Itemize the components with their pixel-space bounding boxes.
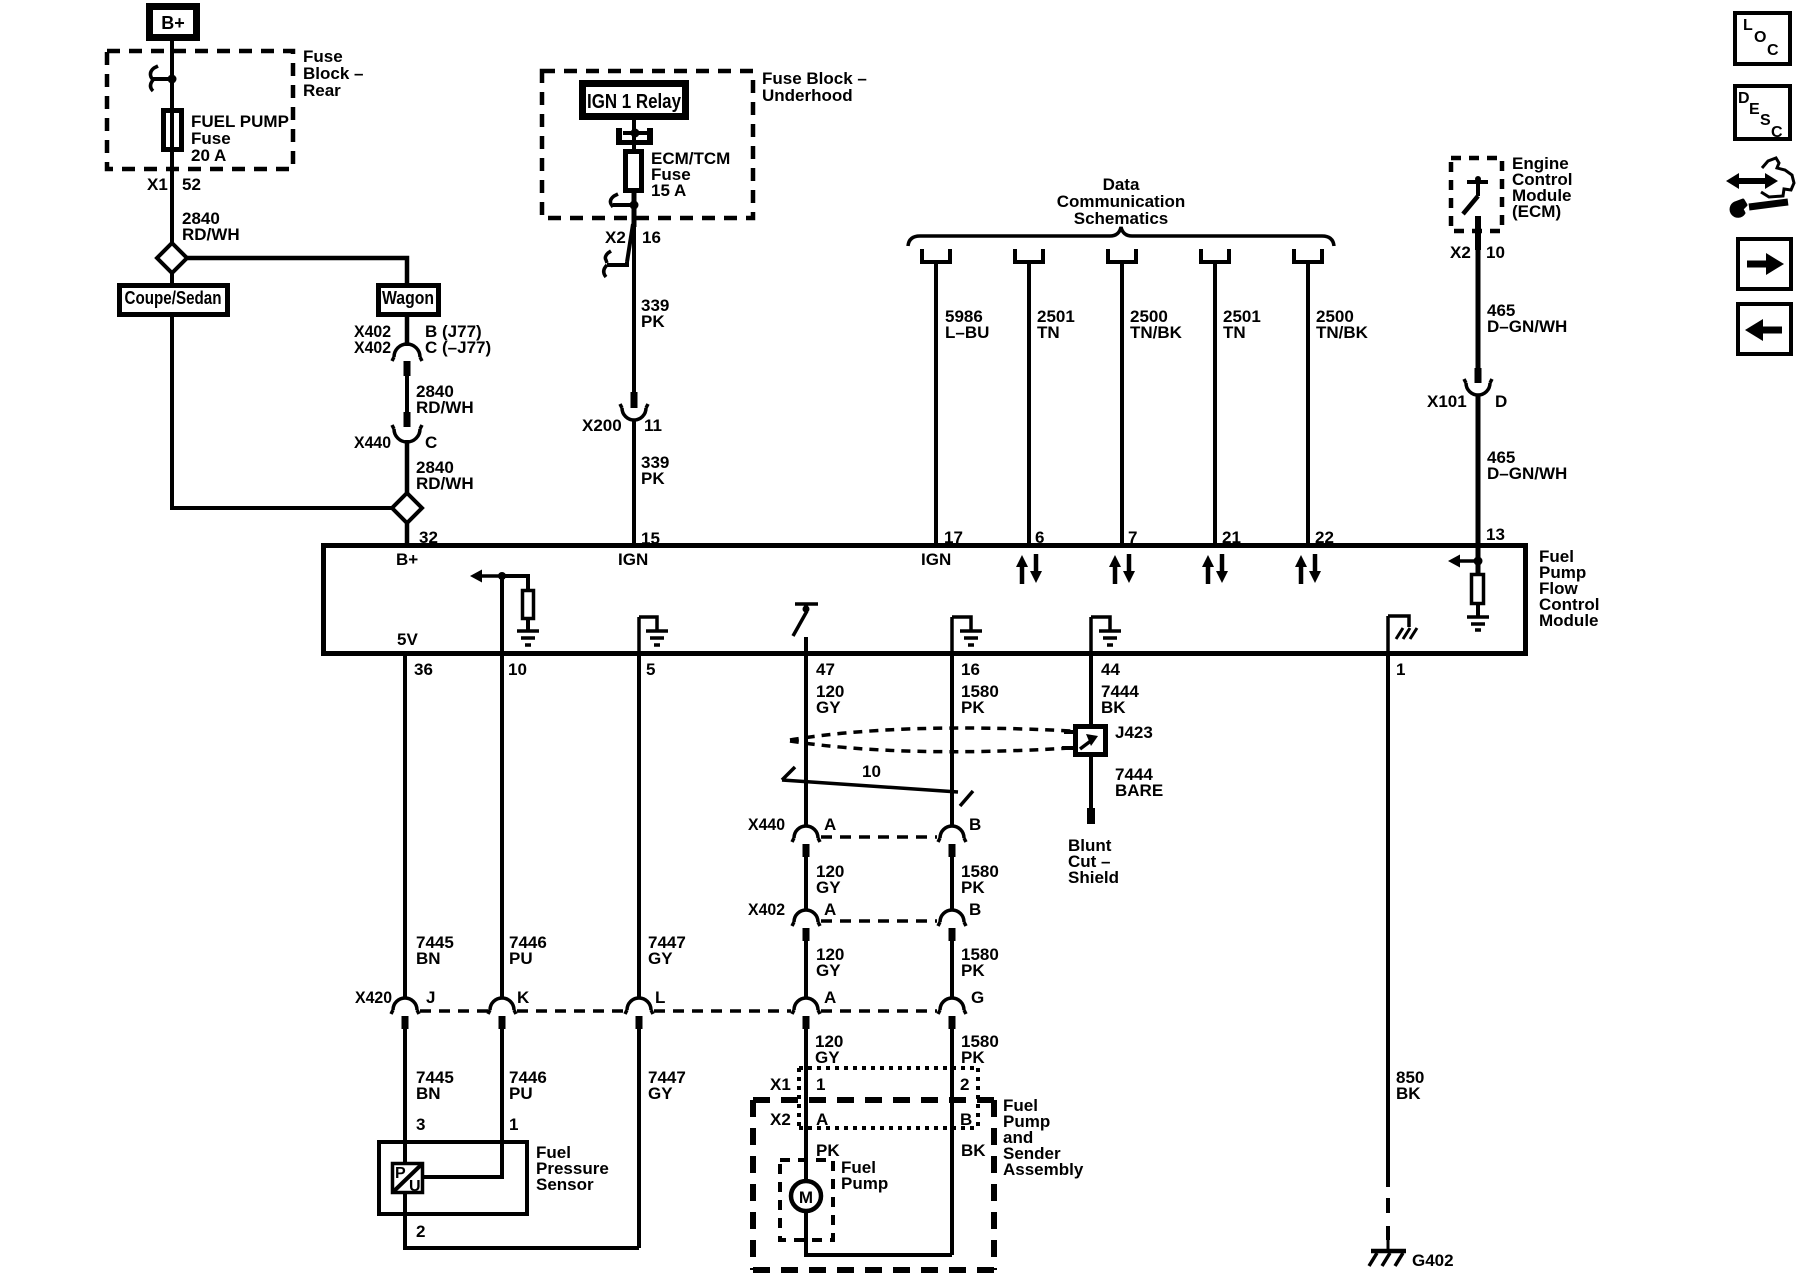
sensor pin labels 3 1 <box>416 1115 518 1134</box>
module serial data arrows pin 6 <box>1016 554 1042 584</box>
module serial data arrows pin 7 <box>1109 554 1135 584</box>
wire label 465 D-GN/WH lower <box>1487 448 1567 483</box>
svg-text:J: J <box>426 988 435 1007</box>
wire pin16 1580 PK <box>950 655 954 826</box>
connector labels X402 B/C <box>354 322 491 357</box>
option box Coupe/Sedan <box>120 286 228 315</box>
wire B X440 to X402 <box>950 857 954 910</box>
connector X440 terminal A <box>792 826 820 857</box>
wire labels 7445 BN 7446 PU 7447 GY <box>416 933 686 968</box>
svg-text:E: E <box>1749 101 1760 118</box>
svg-text:GY: GY <box>816 961 841 980</box>
svg-text:Coupe/Sedan: Coupe/Sedan <box>125 288 222 308</box>
wire X420 K to sensor pin1 <box>424 1029 502 1177</box>
svg-text:G402: G402 <box>1412 1251 1454 1270</box>
wire ECM to X2 <box>1475 216 1481 250</box>
wire splice to module pin 32 <box>405 523 410 544</box>
svg-text:52: 52 <box>182 175 201 194</box>
wire labels 120 GY 1580 PK low <box>816 945 999 980</box>
fuse clip terminal lower <box>610 194 638 210</box>
splice J423 box <box>1062 727 1106 755</box>
off-page terminal pin 22 <box>1294 249 1322 262</box>
svg-text:1: 1 <box>816 1075 825 1094</box>
off-page terminal pin 21 <box>1201 249 1229 262</box>
wire diamond to Coupe/Sedan <box>170 273 174 283</box>
fuse FUEL PUMP 20A <box>164 111 289 166</box>
wire pin36 7445 BN upper <box>403 655 407 999</box>
svg-text:1: 1 <box>509 1115 518 1134</box>
off-page terminal pin 6 <box>1015 249 1043 262</box>
bottom pin labels <box>414 660 1405 679</box>
connector X420 terminal G <box>938 998 966 1029</box>
off-page terminal pin 17 <box>922 249 950 262</box>
module internal pin47 switch <box>793 604 818 655</box>
connector X200 <box>620 392 648 420</box>
wire 2840 RD/WH wagon <box>405 376 409 412</box>
wire 2500 TN/BK a <box>1120 264 1124 544</box>
fuse ECM/TCM 15A <box>626 149 731 200</box>
wire 2500 TN/BK b <box>1306 264 1310 544</box>
twisted pair arrow <box>782 767 973 806</box>
svg-text:GY: GY <box>648 1084 673 1103</box>
svg-text:47: 47 <box>816 660 835 679</box>
svg-text:B: B <box>969 815 981 834</box>
svg-text:PK: PK <box>641 312 665 331</box>
svg-text:PK: PK <box>816 1141 840 1160</box>
blunt cut stub <box>1087 808 1095 824</box>
ECM dashed box <box>1451 158 1502 231</box>
svg-text:20 A: 20 A <box>191 146 226 165</box>
svg-text:IGN: IGN <box>921 550 951 569</box>
svg-text:BK: BK <box>961 1141 986 1160</box>
connector X402 terminal A <box>792 910 820 941</box>
off-page terminal pin 7 <box>1108 249 1136 262</box>
fuel pump label <box>841 1158 888 1193</box>
fuse block underhood dashed box <box>542 71 753 218</box>
connector X420 dashed row <box>420 1009 937 1013</box>
pressure transducer P/U symbol <box>393 1164 423 1196</box>
splice diamond upper <box>157 243 187 273</box>
svg-text:RD/WH: RD/WH <box>416 474 474 493</box>
svg-text:2: 2 <box>416 1222 425 1241</box>
connector label X101 D <box>1427 392 1507 411</box>
fuse block rear dashed box <box>107 51 293 169</box>
relay terminal bracket <box>616 128 653 145</box>
fuel pump dashed box <box>780 1160 833 1240</box>
wire label 2840 RD/WH <box>182 209 240 244</box>
wire fuse to X2 terminal <box>632 191 637 227</box>
wire motor to return <box>806 1211 952 1255</box>
svg-text:PK: PK <box>961 878 985 897</box>
fuel pressure sensor box <box>379 1142 527 1214</box>
connector X402 terminal B <box>938 910 966 941</box>
connector label X2 10 <box>1450 243 1505 262</box>
motor M fuel pump <box>791 1181 821 1211</box>
svg-text:11: 11 <box>644 416 662 435</box>
wire X1-2 return <box>950 1029 954 1255</box>
svg-text:A: A <box>816 1110 828 1129</box>
wire pin5 7447 GY upper <box>637 655 641 999</box>
svg-text:X440: X440 <box>354 433 391 452</box>
connector X1 dotted box <box>799 1068 978 1128</box>
module internal pin1 chassis ground <box>1388 616 1417 655</box>
svg-text:A: A <box>824 900 836 919</box>
svg-text:RD/WH: RD/WH <box>416 398 474 417</box>
svg-text:L: L <box>1743 17 1753 34</box>
wire dashed to G402 <box>1386 1198 1390 1240</box>
wire label 850 BK <box>1396 1068 1424 1103</box>
svg-text:M: M <box>799 1188 813 1207</box>
svg-text:Underhood: Underhood <box>762 86 853 105</box>
connector X420 terminal K <box>488 998 516 1029</box>
wire J423 to blunt cut <box>1089 757 1093 808</box>
fuel pressure sensor label <box>536 1143 609 1194</box>
wire X420 J to sensor pin3 <box>403 1029 407 1162</box>
svg-text:3: 3 <box>416 1115 425 1134</box>
connector X101 <box>1464 368 1492 395</box>
connector labels X440 C <box>354 433 437 452</box>
icon box DESC <box>1735 86 1790 141</box>
svg-text:B+: B+ <box>161 13 185 33</box>
svg-text:X1: X1 <box>147 175 168 194</box>
svg-text:D: D <box>1738 90 1750 107</box>
wire labels 120 GY 1580 PK 7444 BK <box>816 682 1139 717</box>
connector X402 dashed row <box>821 919 937 923</box>
svg-text:(ECM): (ECM) <box>1512 202 1561 221</box>
connector X2 labels <box>770 1110 972 1129</box>
relay box IGN 1 Relay <box>583 84 686 117</box>
wire label 7444 BARE <box>1115 765 1163 800</box>
svg-text:Sensor: Sensor <box>536 1175 594 1194</box>
svg-text:TN/BK: TN/BK <box>1316 323 1369 342</box>
pin labels 17 6 7 21 22 <box>944 528 1334 547</box>
svg-text:B+: B+ <box>396 550 418 569</box>
svg-text:BARE: BARE <box>1115 781 1163 800</box>
wire label 339 PK <box>641 296 669 331</box>
svg-text:A: A <box>824 815 836 834</box>
terminal jog with clip <box>604 224 633 277</box>
blunt cut label <box>1068 836 1119 887</box>
module internal pin10 sense arrow and resistor to ground <box>470 570 539 656</box>
wire sensor pin2 to low reference <box>405 1194 639 1248</box>
fuel pump and sender assembly dashed box <box>753 1100 994 1270</box>
connector X402 labels <box>748 900 981 919</box>
wire relay to fuse <box>632 120 636 151</box>
ECM label <box>1512 154 1572 221</box>
wire label 2840 RD/WH lower <box>416 458 474 493</box>
svg-text:GY: GY <box>816 878 841 897</box>
svg-text:A: A <box>824 988 836 1007</box>
wire 2501 TN b <box>1213 264 1217 544</box>
svg-text:X402: X402 <box>354 338 391 357</box>
fuse clip terminal <box>150 66 176 91</box>
connector label X1 52 <box>147 175 201 194</box>
connector X440 terminal B <box>938 826 966 857</box>
wire pin47 120 GY <box>804 655 808 826</box>
svg-text:BK: BK <box>1101 698 1126 717</box>
module serial data arrows pin 22 <box>1295 554 1321 584</box>
connector X420 terminal J <box>391 998 419 1029</box>
svg-text:C (–J77): C (–J77) <box>425 338 491 357</box>
svg-text:J423: J423 <box>1115 723 1153 742</box>
module label <box>1539 547 1599 630</box>
svg-text:IGN 1 Relay: IGN 1 Relay <box>587 91 682 113</box>
svg-text:PK: PK <box>961 961 985 980</box>
module serial data arrows pin 21 <box>1202 554 1228 584</box>
fuse block underhood label <box>762 69 867 105</box>
svg-text:Schematics: Schematics <box>1074 209 1169 228</box>
svg-text:L–BU: L–BU <box>945 323 989 342</box>
svg-text:G: G <box>971 988 984 1007</box>
svg-text:Pump: Pump <box>841 1174 888 1193</box>
svg-text:TN: TN <box>1223 323 1246 342</box>
wire pin1 850 BK <box>1386 655 1390 1187</box>
svg-text:B: B <box>969 900 981 919</box>
wire label 2840 RD/WH <box>416 382 474 417</box>
wire 2501 TN a <box>1027 264 1031 544</box>
wire labels data comm <box>945 307 1369 342</box>
svg-text:1: 1 <box>1396 660 1405 679</box>
svg-text:2: 2 <box>960 1075 969 1094</box>
fuel pump and sender assembly label <box>1003 1096 1084 1179</box>
svg-text:Wagon: Wagon <box>382 288 434 308</box>
svg-text:O: O <box>1754 29 1766 46</box>
svg-text:X2: X2 <box>1450 243 1471 262</box>
svg-text:TN: TN <box>1037 323 1060 342</box>
svg-text:GY: GY <box>816 698 841 717</box>
wire B X402 to X420 <box>950 941 954 999</box>
svg-text:S: S <box>1760 112 1771 129</box>
svg-text:PU: PU <box>509 1084 533 1103</box>
svg-text:X2: X2 <box>605 228 626 247</box>
svg-text:Module: Module <box>1539 611 1599 630</box>
svg-text:36: 36 <box>414 660 433 679</box>
wire 465 D-GN/WH upper <box>1476 246 1481 368</box>
svg-text:L: L <box>655 988 665 1007</box>
svg-text:16: 16 <box>961 660 980 679</box>
wire Coupe/Sedan to splice <box>172 317 392 508</box>
svg-text:GY: GY <box>648 949 673 968</box>
svg-text:IGN: IGN <box>618 550 648 569</box>
wire 465 D-GN/WH lower <box>1476 395 1481 544</box>
svg-text:5: 5 <box>646 660 655 679</box>
connector label X2 16 <box>605 228 661 247</box>
wire X1-1 to motor <box>804 1029 808 1181</box>
wire X420 L 7447 GY down <box>637 1029 641 1248</box>
wire labels 7445 BN 7446 PU 7447 GY lower <box>416 1068 686 1103</box>
svg-text:BN: BN <box>416 1084 441 1103</box>
icon box LOC <box>1735 13 1790 64</box>
wire B+ to fuse block rear <box>170 41 174 243</box>
svg-text:44: 44 <box>1101 660 1120 679</box>
svg-text:10: 10 <box>862 762 881 781</box>
svg-text:C: C <box>425 433 437 452</box>
svg-text:D: D <box>1495 392 1507 411</box>
connector label X200 11 <box>582 416 662 435</box>
svg-text:10: 10 <box>1486 243 1505 262</box>
icon box back arrow <box>1738 304 1791 354</box>
svg-text:BN: BN <box>416 949 441 968</box>
connector X420 terminal A <box>792 998 820 1029</box>
wire label 465 D-GN/WH <box>1487 301 1567 336</box>
svg-text:Shield: Shield <box>1068 868 1119 887</box>
svg-text:X440: X440 <box>748 815 785 834</box>
svg-text:X402: X402 <box>748 900 785 919</box>
svg-text:PK: PK <box>961 1048 985 1067</box>
wire labels PK BK <box>816 1141 986 1160</box>
wire X440 to splice <box>405 440 410 493</box>
svg-text:U: U <box>409 1178 421 1195</box>
wire pin10 7446 PU upper <box>500 655 504 999</box>
svg-text:PK: PK <box>961 698 985 717</box>
module internal pin44 ground <box>1091 617 1121 655</box>
wire labels 120 GY 1580 PK mid <box>816 862 999 897</box>
svg-text:PU: PU <box>509 949 533 968</box>
wire label 339 PK lower <box>641 453 669 488</box>
fuse block rear label <box>303 47 363 100</box>
svg-text:BK: BK <box>1396 1084 1421 1103</box>
data communication schematics label <box>1057 175 1185 228</box>
splice diamond lower <box>392 493 422 523</box>
wire pin44 7444 BK <box>1089 655 1093 724</box>
svg-text:X1: X1 <box>770 1075 791 1094</box>
svg-text:C: C <box>1771 124 1783 141</box>
icon box forward arrow <box>1738 239 1791 289</box>
svg-text:GY: GY <box>815 1048 840 1067</box>
svg-text:RD/WH: RD/WH <box>182 225 240 244</box>
fuel pump flow control module box <box>324 546 1526 654</box>
svg-text:16: 16 <box>642 228 661 247</box>
wire 339 PK upper <box>632 219 636 392</box>
svg-text:15 A: 15 A <box>651 181 686 200</box>
svg-text:PK: PK <box>641 469 665 488</box>
wire A X440 to X402 <box>804 857 808 910</box>
connector X1 labels <box>770 1075 969 1094</box>
svg-text:10: 10 <box>508 660 527 679</box>
svg-text:X200: X200 <box>582 416 622 435</box>
svg-text:Assembly: Assembly <box>1003 1160 1084 1179</box>
svg-text:X101: X101 <box>1427 392 1467 411</box>
connector X440 labels <box>748 815 981 834</box>
svg-text:B: B <box>960 1110 972 1129</box>
svg-text:C: C <box>1767 42 1779 59</box>
connector X420 terminal L <box>625 998 653 1029</box>
wire 339 PK lower <box>632 420 636 544</box>
module internal pin5 ground <box>639 617 668 655</box>
svg-text:D–GN/WH: D–GN/WH <box>1487 464 1567 483</box>
module internal pin13 arrow resistor ground <box>1448 544 1489 630</box>
wire labels 120 GY 1580 PK bottom <box>815 1032 999 1067</box>
icon vehicle arrow and wrench <box>1726 158 1794 216</box>
svg-text:K: K <box>517 988 530 1007</box>
module internal pin16 ground <box>952 617 982 655</box>
svg-text:P: P <box>395 1165 406 1182</box>
wire diamond to Wagon branch <box>186 258 407 283</box>
ground G402 <box>1369 1240 1406 1266</box>
wire A X402 to X420 <box>804 941 808 999</box>
svg-text:X2: X2 <box>770 1110 791 1129</box>
connector X440 half <box>392 412 422 442</box>
shield ellipse dashed <box>790 728 1071 752</box>
option box Wagon <box>379 286 439 315</box>
svg-text:X420: X420 <box>355 988 392 1007</box>
curly brace <box>908 227 1334 246</box>
wire 5986 L-BU <box>934 264 938 544</box>
svg-text:Rear: Rear <box>303 81 341 100</box>
svg-text:D–GN/WH: D–GN/WH <box>1487 317 1567 336</box>
connector X440 dashed row <box>821 835 937 839</box>
power symbol B+ <box>150 7 197 38</box>
connector X402 half <box>392 344 422 376</box>
connector X420 labels <box>355 988 984 1007</box>
ECM switch contact <box>1463 176 1488 214</box>
wire Wagon to X402 <box>405 317 410 346</box>
svg-text:13: 13 <box>1486 525 1505 544</box>
svg-text:5V: 5V <box>397 630 418 649</box>
svg-text:TN/BK: TN/BK <box>1130 323 1183 342</box>
